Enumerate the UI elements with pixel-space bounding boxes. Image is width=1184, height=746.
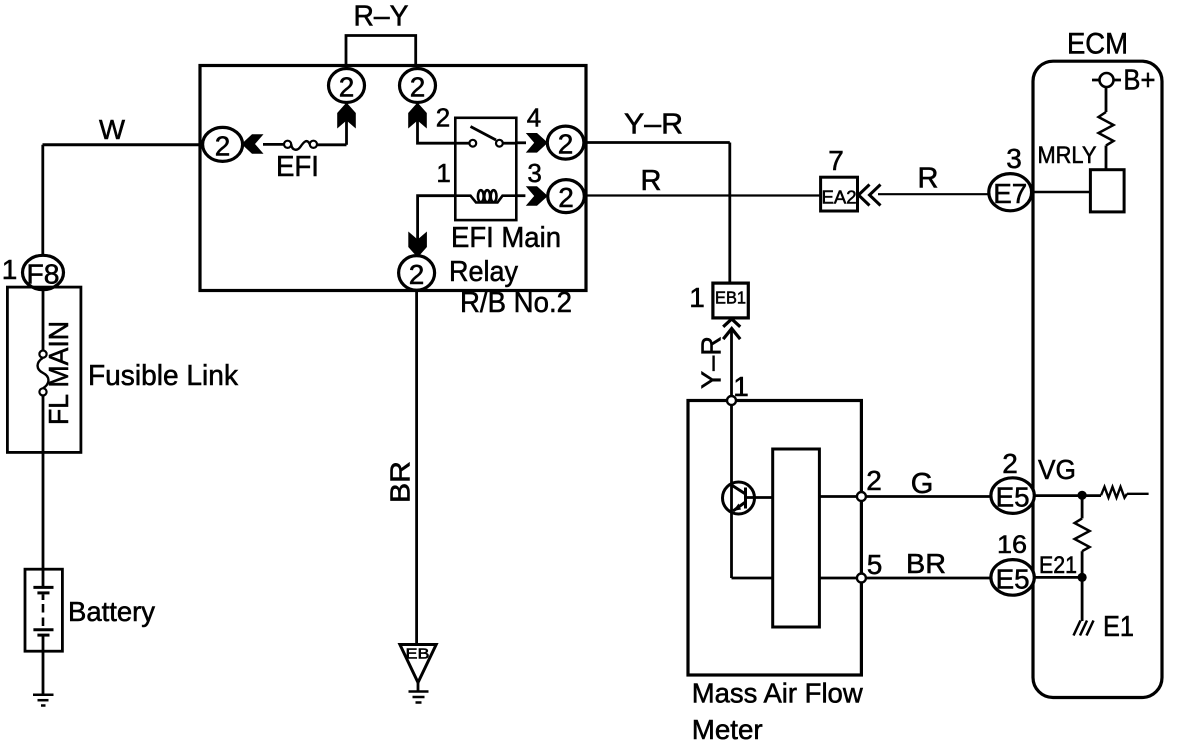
connector EB1 [713, 283, 748, 318]
svg-text:E1: E1 [1103, 611, 1134, 643]
svg-text:EFI Main: EFI Main [451, 222, 561, 254]
wire branch 2 vertical to relay pin 2 [418, 103, 456, 143]
svg-text:Y–R: Y–R [696, 336, 727, 389]
svg-text:Y–R: Y–R [624, 109, 683, 141]
svg-text:EFI: EFI [276, 151, 319, 183]
wire R to E7 [878, 193, 989, 195]
wire R-Y jumper bracket [346, 36, 416, 67]
svg-text:2: 2 [866, 465, 882, 496]
connector 2 (box bottom, BR output) [399, 256, 435, 291]
wire relay pin 1 to box bottom connector [418, 196, 456, 256]
wire VG into ECM [1034, 494, 1101, 497]
wire E21 down to ground [1081, 577, 1084, 621]
fusible link box [7, 287, 81, 452]
svg-text:7: 7 [828, 145, 844, 176]
svg-text:1: 1 [2, 254, 18, 285]
svg-text:B+: B+ [1123, 65, 1155, 97]
wire battery to ground [42, 651, 45, 694]
svg-text:EB1: EB1 [715, 288, 746, 308]
wire E7 to MRLY [1032, 191, 1091, 193]
connector 2 (box top, right) [400, 69, 436, 103]
wire after resistor [1127, 493, 1149, 495]
arrow right (pin 4) [526, 133, 548, 153]
svg-text:VG: VG [1038, 454, 1076, 485]
fuse element FL MAIN [38, 351, 49, 396]
connector 2 (box right, Y-R output) [547, 126, 584, 160]
connector 2 (box left, W input) [203, 127, 243, 161]
wire resistor to MRLY box [1105, 146, 1108, 170]
arrow double chevron up below EB1 [723, 319, 740, 339]
ground (battery) [33, 695, 54, 706]
svg-text:R: R [641, 165, 662, 197]
arrow up (branch 2) [408, 103, 427, 129]
svg-text:2: 2 [558, 182, 574, 213]
svg-text:2: 2 [339, 72, 355, 103]
arrow right (pin 3) [526, 186, 548, 206]
wire EB1 to mass air flow meter [730, 330, 733, 401]
wire R horizontal to EA2 [584, 194, 820, 196]
node pin 2 on MAF [857, 492, 866, 501]
ground (EB) [409, 692, 429, 703]
wire W horizontal from battery branch to junction box [43, 143, 204, 146]
MRLY driver box [1090, 170, 1124, 212]
wire E5 to E21 junction [1034, 576, 1082, 579]
battery [25, 569, 62, 651]
wire VG junction down [1081, 495, 1084, 518]
arrow chevrons at EA2 [859, 185, 881, 206]
wire MAF internal bottom [732, 577, 773, 580]
svg-text:3: 3 [527, 158, 541, 188]
ground E1 (chassis) [1074, 621, 1094, 636]
svg-text:1: 1 [436, 158, 450, 188]
wire vertical down to F8 [41, 145, 44, 256]
fuse EFI [284, 141, 317, 150]
svg-text:2: 2 [558, 129, 574, 160]
connector F8 [23, 255, 64, 289]
svg-text:R/B No.2: R/B No.2 [460, 287, 572, 319]
svg-text:G: G [911, 468, 934, 500]
svg-text:1: 1 [689, 282, 705, 313]
svg-text:E7: E7 [993, 178, 1027, 209]
wire relay pin 3 output [516, 194, 525, 197]
node pin 1 on MAF [727, 396, 736, 405]
resistor (VG horizontal) [1101, 487, 1127, 498]
wire inside fusible link box [42, 290, 45, 351]
relay box EFI Main Relay [455, 118, 516, 220]
svg-text:2: 2 [436, 103, 450, 133]
svg-text:BR: BR [385, 461, 416, 503]
svg-text:W: W [99, 114, 126, 145]
svg-text:FL MAIN: FL MAIN [43, 321, 74, 425]
junction dot VG [1078, 491, 1087, 500]
wire Y-R horizontal [584, 141, 730, 144]
node pin 5 on MAF [857, 574, 866, 583]
svg-text:R: R [918, 163, 939, 195]
wire EB stub [417, 683, 420, 692]
wire relay pin 4 output [516, 141, 526, 144]
connector E5 (VG) [991, 478, 1034, 514]
wire MAF internal vertical [730, 405, 733, 578]
arrow left (W input) [242, 134, 264, 153]
wire B+ to resistor [1105, 87, 1108, 112]
svg-text:Mass Air Flow: Mass Air Flow [692, 678, 864, 709]
transistor (MAF sensor) [723, 482, 755, 514]
svg-text:R–Y: R–Y [354, 1, 409, 33]
svg-text:E5: E5 [996, 482, 1030, 513]
mass air flow meter box [688, 401, 861, 676]
wire Y-R vertical down to EB1 [728, 143, 731, 284]
svg-text:EA2: EA2 [822, 187, 857, 208]
svg-text:EB: EB [406, 646, 430, 663]
resistor (VG to E21 vertical) [1075, 518, 1090, 551]
svg-text:2: 2 [410, 72, 426, 103]
junction dot E21 [1078, 573, 1087, 582]
svg-text:2: 2 [215, 131, 231, 162]
wire MAF pin 2 [819, 495, 991, 498]
wire transistor base to sensing element [746, 496, 773, 499]
connector 2 (box top, left) [329, 69, 365, 103]
svg-text:3: 3 [1006, 143, 1022, 174]
svg-text:Battery: Battery [68, 596, 155, 627]
ECM box [1033, 61, 1162, 697]
terminal B+ [1092, 65, 1155, 97]
wire MAF pin 5 [819, 577, 991, 580]
arrow down (pin 1) [408, 232, 427, 258]
wire from fusible link to battery [42, 396, 45, 570]
svg-text:ECM: ECM [1067, 28, 1128, 61]
wire resistor to E21 junction [1081, 551, 1084, 577]
svg-text:Relay: Relay [449, 256, 518, 288]
wire fuse to branch 1 [317, 143, 347, 146]
connector 2 (box right, R output) [548, 180, 585, 214]
resistor (B+ pull-up) [1099, 112, 1114, 146]
svg-text:E5: E5 [996, 563, 1030, 594]
connector EA2 [821, 177, 858, 211]
svg-text:E21: E21 [1039, 552, 1077, 579]
svg-text:BR: BR [906, 548, 946, 579]
ground EB triangle [400, 645, 436, 683]
relay coil [455, 190, 516, 202]
wire BR vertical from relay to EB ground [415, 290, 418, 644]
relay switch contacts [455, 127, 516, 147]
svg-text:5: 5 [867, 549, 883, 580]
wire branch 1 vertical [345, 103, 348, 145]
svg-text:2: 2 [1002, 448, 1018, 479]
svg-text:4: 4 [527, 103, 541, 133]
svg-text:Fusible Link: Fusible Link [88, 360, 238, 392]
svg-text:Meter: Meter [692, 714, 763, 745]
junction box R/B No.2 outline [200, 66, 586, 291]
arrow up (branch 1) [337, 103, 356, 129]
svg-text:16: 16 [997, 531, 1027, 559]
connector E5 (E21) [991, 560, 1034, 596]
svg-text:MRLY: MRLY [1038, 142, 1097, 169]
svg-text:F8: F8 [27, 259, 60, 290]
wire arrow to fuse [263, 143, 284, 146]
connector E7 [989, 174, 1032, 211]
sensing element rectangle [773, 449, 820, 627]
svg-text:2: 2 [409, 259, 425, 290]
